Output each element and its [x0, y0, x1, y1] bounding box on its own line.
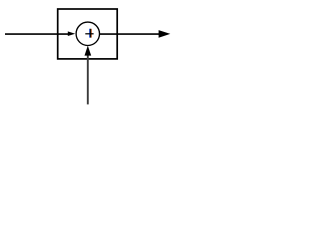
wire output right	[99, 33, 165, 35]
summing junction circle	[76, 22, 99, 45]
wire input left	[5, 33, 70, 35]
input arrowhead	[68, 31, 75, 36]
summing block box	[58, 9, 117, 59]
plus sign vertical core	[90, 29, 92, 38]
bottom arrowhead	[85, 46, 92, 56]
output arrowhead	[159, 30, 171, 38]
plus sign vertical orange fringe	[90, 29, 92, 38]
plus sign vertical blue fringe	[89, 29, 91, 38]
plus sign horizontal	[85, 33, 93, 35]
wire bottom vertical	[87, 52, 89, 104]
